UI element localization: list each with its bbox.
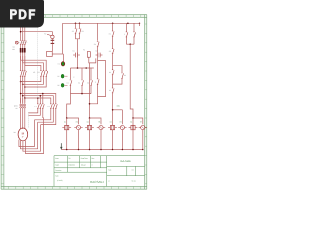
svg-text:RACSAV-I: RACSAV-I: [90, 180, 104, 184]
svg-text:Q1: Q1: [13, 46, 15, 49]
svg-text:IAA-MAE: IAA-MAE: [120, 160, 131, 163]
svg-text:S2: S2: [72, 30, 74, 33]
svg-text:K2: K2: [37, 71, 39, 74]
svg-text:F2: F2: [83, 49, 85, 52]
svg-text:S5: S5: [109, 50, 111, 53]
svg-text:a: a: [124, 34, 125, 36]
svg-text:h3: h3: [57, 84, 59, 87]
svg-text:h2: h2: [57, 75, 59, 78]
svg-text:QM1: QM1: [14, 104, 18, 107]
svg-text:K1: K1: [109, 32, 111, 35]
svg-text:p: p: [95, 82, 96, 84]
svg-text:S4: S4: [94, 43, 96, 46]
svg-text:S3: S3: [82, 30, 84, 33]
svg-text:F0: F0: [44, 33, 46, 36]
svg-text:K1: K1: [73, 50, 75, 53]
svg-text:p: p: [74, 76, 75, 78]
svg-text:h1: h1: [58, 63, 60, 66]
svg-text:K1: K1: [33, 71, 35, 74]
